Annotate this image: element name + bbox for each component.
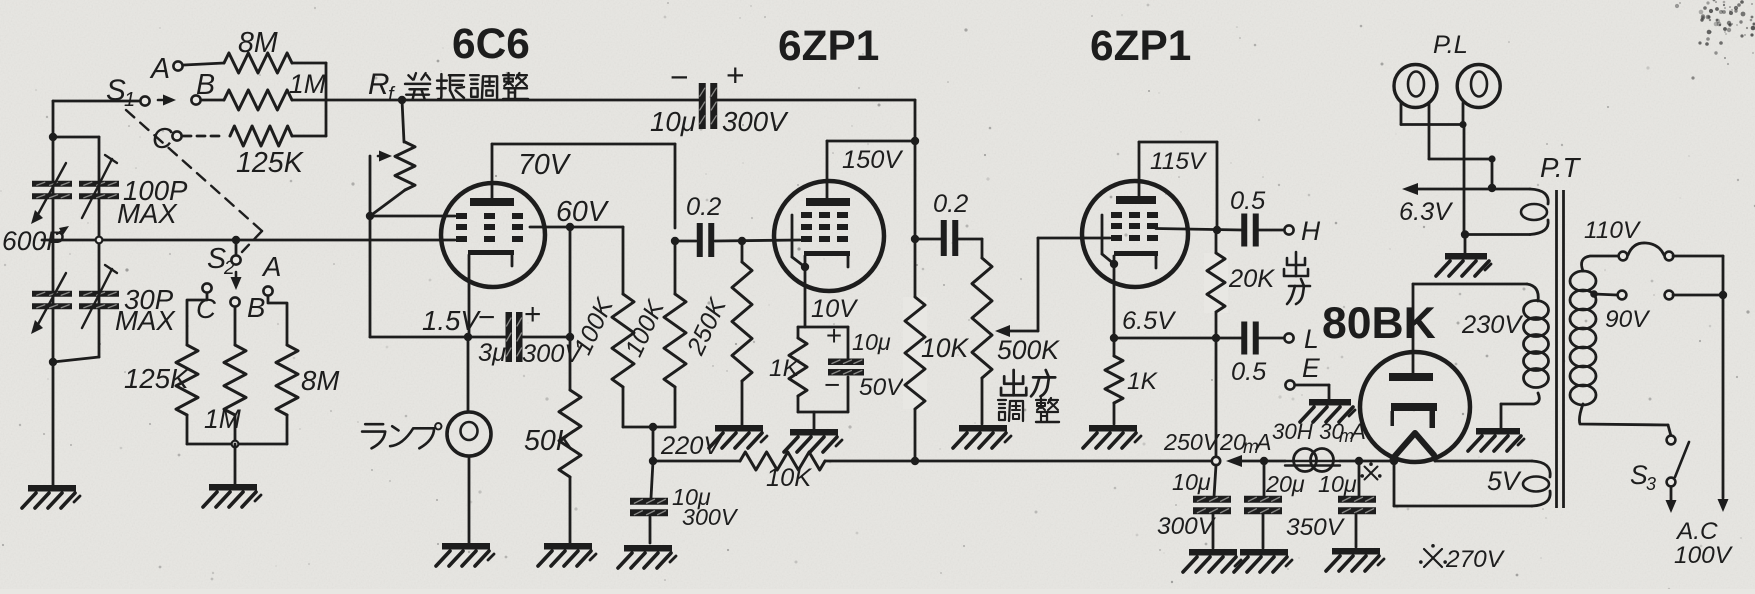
svg-text:350V: 350V	[1286, 514, 1346, 541]
svg-text:−: −	[670, 59, 689, 95]
svg-text:150V: 150V	[842, 146, 903, 174]
svg-text:6ZP1: 6ZP1	[1090, 22, 1191, 69]
svg-text:P.L: P.L	[1433, 31, 1468, 59]
svg-text:3μ: 3μ	[478, 339, 506, 367]
svg-text:6.5V: 6.5V	[1122, 307, 1176, 335]
svg-text:1K: 1K	[769, 355, 801, 382]
svg-text:1M: 1M	[289, 69, 327, 99]
svg-text:1K: 1K	[1127, 368, 1159, 395]
svg-text:300V: 300V	[682, 504, 739, 530]
svg-text:L: L	[1304, 324, 1319, 354]
svg-text:30H 30: 30H 30	[1272, 419, 1344, 444]
svg-text:125K: 125K	[124, 363, 190, 394]
svg-text:0.5: 0.5	[1230, 187, 1266, 215]
svg-text:125K: 125K	[236, 147, 305, 179]
svg-text:1M: 1M	[204, 404, 242, 434]
svg-text:50K: 50K	[524, 425, 577, 457]
svg-text:500K: 500K	[997, 335, 1060, 365]
svg-text:300V: 300V	[722, 106, 789, 137]
svg-text:3: 3	[1646, 474, 1656, 494]
svg-text:10μ: 10μ	[1318, 471, 1357, 497]
svg-text:B: B	[196, 69, 215, 101]
svg-text:250V: 250V	[1163, 429, 1221, 455]
svg-text:P.T: P.T	[1540, 152, 1582, 183]
svg-text:10V: 10V	[811, 295, 858, 323]
svg-text:220V: 220V	[660, 432, 722, 460]
svg-text:10K: 10K	[766, 464, 812, 492]
svg-text:5V: 5V	[1487, 466, 1522, 496]
svg-text:230V: 230V	[1461, 311, 1523, 339]
svg-text:50V: 50V	[859, 374, 905, 401]
svg-text:MAX: MAX	[115, 305, 176, 336]
svg-text:A.C: A.C	[1675, 518, 1718, 545]
svg-text:60V: 60V	[556, 196, 610, 228]
svg-text:−: −	[478, 301, 495, 334]
svg-text:80BK: 80BK	[1322, 299, 1436, 348]
svg-text:10K: 10K	[921, 333, 969, 363]
svg-text:0.2: 0.2	[933, 190, 968, 218]
svg-text:R: R	[368, 68, 389, 101]
svg-text:270V: 270V	[1445, 546, 1506, 573]
svg-text:0.5: 0.5	[1231, 358, 1267, 386]
svg-text:+: +	[524, 298, 541, 331]
svg-text:20μ: 20μ	[1265, 471, 1305, 497]
svg-text:6ZP1: 6ZP1	[778, 22, 879, 69]
svg-text:1: 1	[124, 89, 135, 111]
svg-text:6C6: 6C6	[452, 20, 530, 67]
svg-text:20K: 20K	[1228, 265, 1275, 293]
svg-text:10μ: 10μ	[1172, 469, 1211, 495]
svg-text:600P: 600P	[2, 226, 64, 256]
svg-text:90V: 90V	[1605, 306, 1651, 333]
svg-text:300V: 300V	[1157, 513, 1217, 540]
svg-text:A: A	[149, 53, 170, 85]
svg-text:10μ: 10μ	[650, 106, 696, 137]
svg-text:6.3V: 6.3V	[1399, 198, 1453, 226]
svg-text:1.5V: 1.5V	[422, 305, 481, 336]
svg-text:70V: 70V	[518, 149, 572, 181]
svg-text:A: A	[1254, 429, 1272, 455]
svg-text:+: +	[726, 57, 745, 93]
svg-text:A: A	[261, 251, 281, 282]
svg-text:110V: 110V	[1584, 217, 1642, 244]
svg-text:100V: 100V	[1674, 542, 1734, 569]
svg-text:20: 20	[1219, 429, 1246, 455]
svg-text:8M: 8M	[301, 365, 339, 396]
svg-text:H: H	[1301, 216, 1321, 246]
svg-text:115V: 115V	[1150, 148, 1208, 175]
svg-text:+: +	[826, 320, 842, 351]
svg-text:S: S	[106, 74, 126, 107]
svg-text:8M: 8M	[238, 27, 278, 59]
svg-text:E: E	[1302, 353, 1320, 383]
svg-text:−: −	[824, 369, 840, 400]
svg-text:B: B	[247, 292, 265, 323]
svg-text:0.2: 0.2	[686, 193, 721, 221]
svg-text:10μ: 10μ	[852, 329, 891, 355]
svg-text:MAX: MAX	[117, 198, 178, 229]
